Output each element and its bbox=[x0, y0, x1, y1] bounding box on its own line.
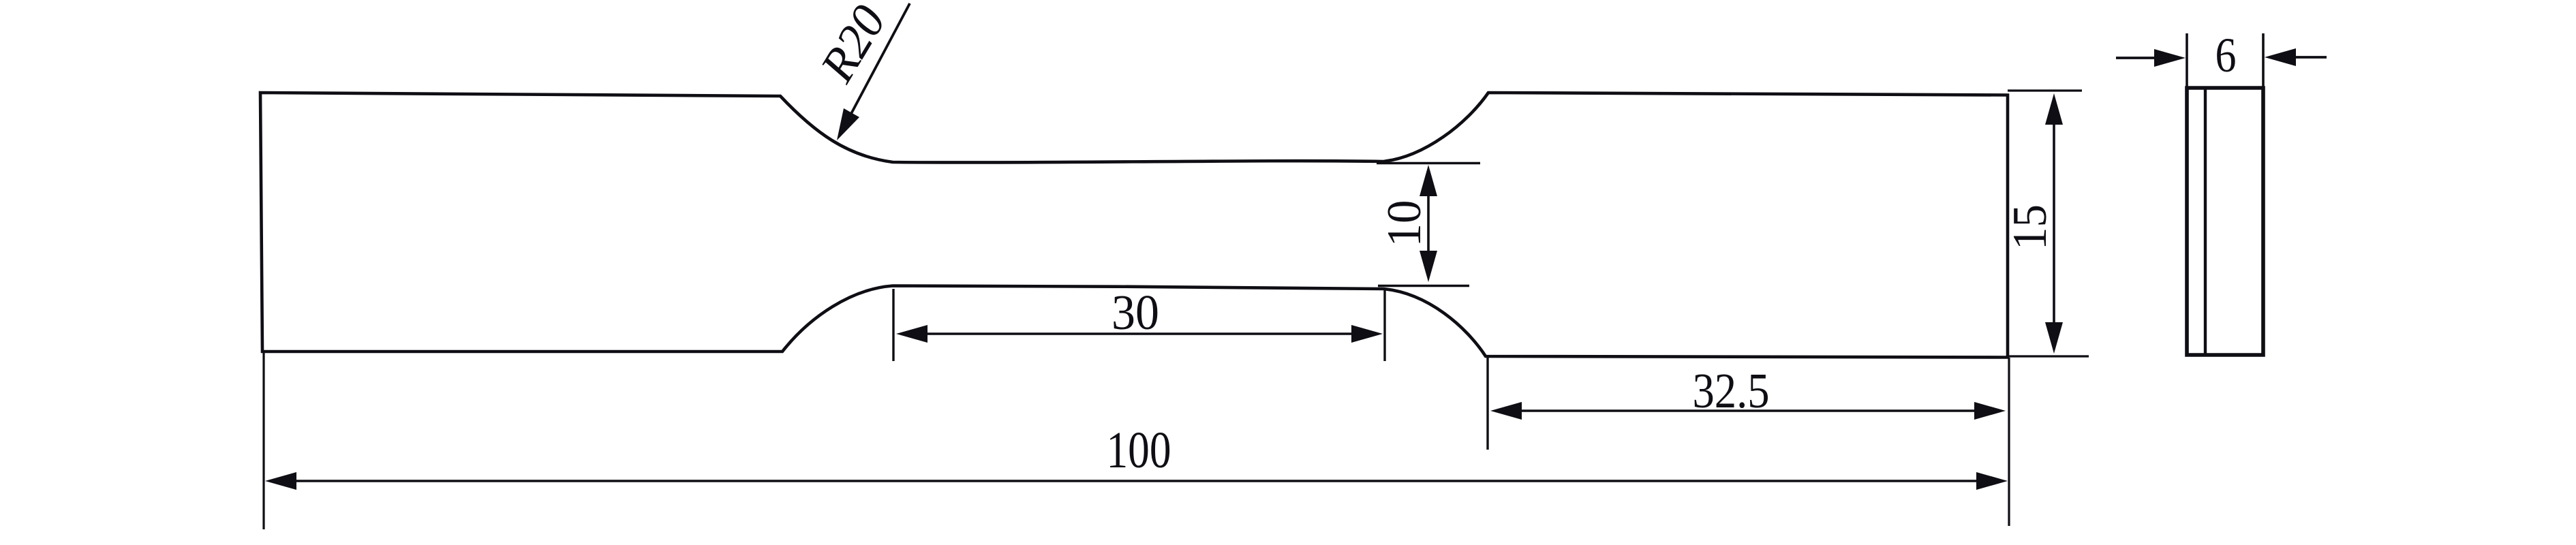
extension line 30 left bbox=[892, 289, 894, 361]
extension tick 10 bottom bbox=[1378, 285, 1469, 287]
extension line 6 right bbox=[2262, 33, 2265, 87]
dimension line 32.5 bbox=[1497, 409, 1999, 412]
extension line 6 left bbox=[2186, 33, 2188, 87]
svg-text:15: 15 bbox=[2004, 204, 2057, 250]
extension line right (100 / 32.5 dim) bbox=[2008, 358, 2010, 526]
specimen outline (front view) bbox=[260, 93, 2008, 358]
extension tick 10 top bbox=[1377, 162, 1480, 164]
side view rectangle bbox=[2187, 88, 2263, 355]
extension tick 15 bottom bbox=[2008, 355, 2089, 357]
svg-text:6: 6 bbox=[2215, 28, 2237, 82]
extension line left (100 dim) bbox=[262, 353, 264, 529]
R20 leader line bbox=[846, 3, 910, 123]
extension line 30 right bbox=[1383, 289, 1385, 361]
svg-text:32.5: 32.5 bbox=[1693, 363, 1770, 418]
dimension 6 right arrow bbox=[2290, 56, 2327, 59]
dimension line 15 (vertical) bbox=[2053, 102, 2055, 346]
side view inner line bbox=[2204, 89, 2207, 354]
svg-text:30: 30 bbox=[1111, 285, 1159, 340]
dimension line 30 bbox=[903, 332, 1377, 335]
R20 arrowhead bbox=[837, 108, 859, 140]
dimension line 100 bbox=[274, 480, 2001, 482]
svg-text:10: 10 bbox=[1378, 200, 1431, 247]
extension line 32.5 left bbox=[1486, 358, 1488, 450]
dimension 6 left arrow bbox=[2116, 57, 2159, 59]
dimension line 10 (vertical) bbox=[1427, 172, 1430, 275]
svg-text:R20: R20 bbox=[810, 0, 896, 91]
svg-text:100: 100 bbox=[1107, 422, 1171, 479]
extension tick 15 top bbox=[2008, 89, 2082, 91]
